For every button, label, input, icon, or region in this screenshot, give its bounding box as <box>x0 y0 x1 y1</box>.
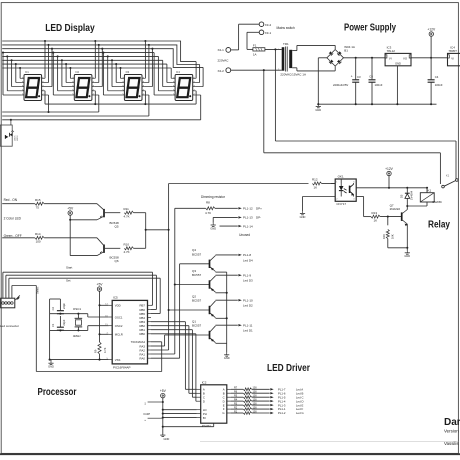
svg-text:X3-1: X3-1 <box>265 31 272 35</box>
svg-text:1K: 1K <box>314 185 318 189</box>
svg-text:R9: R9 <box>94 349 98 353</box>
svg-text:D1: D1 <box>25 70 29 74</box>
svg-text:R15: R15 <box>35 198 41 202</box>
svg-text:2N2222: 2N2222 <box>390 207 401 211</box>
svg-text:Processor: Processor <box>38 387 77 398</box>
svg-text:GND: GND <box>315 108 321 112</box>
svg-text:Mains switch: Mains switch <box>277 26 295 30</box>
svg-text:22pF: 22pF <box>62 319 66 325</box>
svg-text:2 Color LED: 2 Color LED <box>4 216 22 220</box>
svg-text:Led D2: Led D2 <box>243 304 253 308</box>
svg-text:PL1-2: PL1-2 <box>278 411 286 415</box>
svg-text:VDD: VDD <box>115 304 121 308</box>
svg-text:OSC1: OSC1 <box>73 307 82 311</box>
svg-text:R16: R16 <box>382 234 386 239</box>
svg-text:100: 100 <box>253 399 258 402</box>
svg-text:GND: GND <box>164 437 170 441</box>
svg-text:Power Supply: Power Supply <box>344 23 396 34</box>
svg-text:PL1-8: PL1-8 <box>243 253 251 257</box>
svg-text:R8: R8 <box>206 200 210 204</box>
svg-text:IC2P: IC2P <box>144 412 151 416</box>
svg-text:100: 100 <box>36 240 41 244</box>
svg-text:X3-2: X3-2 <box>265 23 272 27</box>
svg-text:+12V: +12V <box>427 27 436 31</box>
svg-text:X2-2: X2-2 <box>218 69 225 73</box>
svg-text:D3: D3 <box>126 70 130 74</box>
svg-text:22pF: 22pF <box>62 303 66 309</box>
svg-text:VI: VI <box>389 56 392 60</box>
svg-text:LED Driver: LED Driver <box>267 363 310 374</box>
svg-text:DP-: DP- <box>256 216 261 220</box>
svg-text:G: G <box>222 411 224 415</box>
svg-text:PL1-9: PL1-9 <box>243 273 251 277</box>
svg-text:2200uF/25V: 2200uF/25V <box>333 83 348 87</box>
svg-text:4.7K: 4.7K <box>124 214 130 218</box>
svg-text:+12V: +12V <box>385 167 394 171</box>
svg-text:RA0: RA0 <box>139 357 145 361</box>
svg-text:PL1-10: PL1-10 <box>243 298 253 302</box>
svg-text:LED Display: LED Display <box>45 23 95 34</box>
svg-text:MCLR: MCLR <box>115 333 123 337</box>
svg-text:R11: R11 <box>124 207 130 211</box>
svg-text:R12: R12 <box>312 177 318 181</box>
svg-text:100: 100 <box>253 406 258 409</box>
svg-text:R10: R10 <box>124 243 130 247</box>
svg-text:Led D3: Led D3 <box>243 279 253 283</box>
svg-text:1N4004: 1N4004 <box>410 190 414 200</box>
svg-text:VI: VI <box>451 56 454 60</box>
svg-text:4543N: 4543N <box>202 424 211 428</box>
svg-text:R13: R13 <box>372 211 378 215</box>
svg-text:100: 100 <box>253 410 258 413</box>
svg-text:R14: R14 <box>35 232 41 236</box>
svg-text:VSS: VSS <box>115 358 121 362</box>
svg-text:4.7K: 4.7K <box>103 347 107 353</box>
svg-text:IC5: IC5 <box>113 296 118 300</box>
svg-text:Red - ON: Red - ON <box>4 198 18 202</box>
svg-text:+5V: +5V <box>67 206 74 210</box>
svg-text:LED6: LED6 <box>17 135 19 141</box>
svg-text:+5V: +5V <box>97 282 104 286</box>
svg-text:K1: K1 <box>428 189 432 193</box>
svg-text:TR1: TR1 <box>283 42 289 46</box>
svg-text:Set: Set <box>66 279 71 283</box>
svg-text:DP+: DP+ <box>256 207 262 211</box>
svg-text:Led G: Led G <box>296 411 304 415</box>
svg-text:220VAC: 220VAC <box>218 58 230 62</box>
svg-text:Q5: Q5 <box>115 224 119 228</box>
svg-text:100: 100 <box>253 391 258 394</box>
svg-text:IC2: IC2 <box>202 380 207 384</box>
svg-text:10K: 10K <box>391 234 395 239</box>
svg-text:4MHz: 4MHz <box>73 334 81 338</box>
svg-text:Start: Start <box>66 266 73 270</box>
svg-text:RB0: RB0 <box>139 332 145 336</box>
svg-text:Version 1.2: Version 1.2 <box>444 428 460 433</box>
svg-text:Relay: Relay <box>428 220 450 231</box>
svg-text:+5V: +5V <box>160 389 167 393</box>
svg-text:C3: C3 <box>357 75 361 79</box>
svg-text:100nF: 100nF <box>435 83 443 87</box>
svg-text:Led D1: Led D1 <box>243 329 253 333</box>
svg-text:Unused: Unused <box>239 233 250 237</box>
svg-text:PL1-14: PL1-14 <box>243 224 253 228</box>
svg-text:C1: C1 <box>51 323 55 327</box>
svg-text:PL1-13: PL1-13 <box>243 216 253 220</box>
svg-text:1K: 1K <box>374 219 378 223</box>
svg-text:OSC1: OSC1 <box>115 315 123 319</box>
svg-text:100: 100 <box>253 387 258 390</box>
svg-text:ES2066: ES2066 <box>433 200 443 204</box>
svg-text:D2: D2 <box>76 70 80 74</box>
svg-text:100: 100 <box>253 403 258 406</box>
svg-text:GND: GND <box>395 62 401 66</box>
svg-text:+: + <box>351 75 353 79</box>
svg-text:100: 100 <box>253 395 258 398</box>
svg-text:75: 75 <box>36 206 40 210</box>
svg-text:220VAC/15VAC 1A: 220VAC/15VAC 1A <box>280 72 306 76</box>
svg-text:GND: GND <box>210 226 216 230</box>
svg-text:Led D4: Led D4 <box>243 258 253 262</box>
svg-text:D: D <box>203 399 205 403</box>
svg-text:C2: C2 <box>51 307 55 311</box>
svg-text:4.7K: 4.7K <box>124 250 130 254</box>
svg-text:GND: GND <box>48 365 54 369</box>
svg-text:GND: GND <box>300 215 306 219</box>
svg-text:Dimming resistor: Dimming resistor <box>201 195 226 199</box>
svg-text:4.7K: 4.7K <box>205 211 211 215</box>
svg-text:78L12: 78L12 <box>387 49 396 53</box>
svg-text:PL1-11: PL1-11 <box>243 323 253 327</box>
svg-text:B1: B1 <box>344 49 348 53</box>
svg-text:OSC2: OSC2 <box>115 324 123 328</box>
svg-text:GND: GND <box>404 254 410 258</box>
svg-text:CNY17: CNY17 <box>336 202 346 206</box>
svg-text:PIC16F84AP: PIC16F84AP <box>113 365 131 369</box>
svg-text:C6: C6 <box>369 74 373 78</box>
svg-text:C4: C4 <box>435 75 439 79</box>
svg-text:F1: F1 <box>253 44 257 48</box>
svg-text:BC557: BC557 <box>192 252 202 256</box>
svg-text:Led connector: Led connector <box>0 324 19 328</box>
svg-text:X2-1: X2-1 <box>218 48 225 52</box>
svg-text:Q6: Q6 <box>115 259 119 263</box>
svg-text:BC557: BC557 <box>192 273 202 277</box>
svg-text:D5: D5 <box>400 194 404 198</box>
svg-text:1A: 1A <box>253 52 257 56</box>
svg-text:D4: D4 <box>176 70 180 74</box>
svg-text:OK1: OK1 <box>338 175 344 179</box>
svg-text:Select: Select <box>36 287 40 294</box>
svg-text:K1: K1 <box>446 173 450 177</box>
svg-text:BI: BI <box>203 416 206 420</box>
svg-text:BC557: BC557 <box>192 324 202 328</box>
svg-text:7805T: 7805T <box>448 49 457 53</box>
svg-text:Darkroom: Darkroom <box>444 417 460 428</box>
svg-text:PL1-12: PL1-12 <box>243 207 253 211</box>
svg-text:GND: GND <box>224 356 230 360</box>
svg-text:100nF: 100nF <box>375 83 383 87</box>
svg-text:BC557: BC557 <box>192 299 202 303</box>
